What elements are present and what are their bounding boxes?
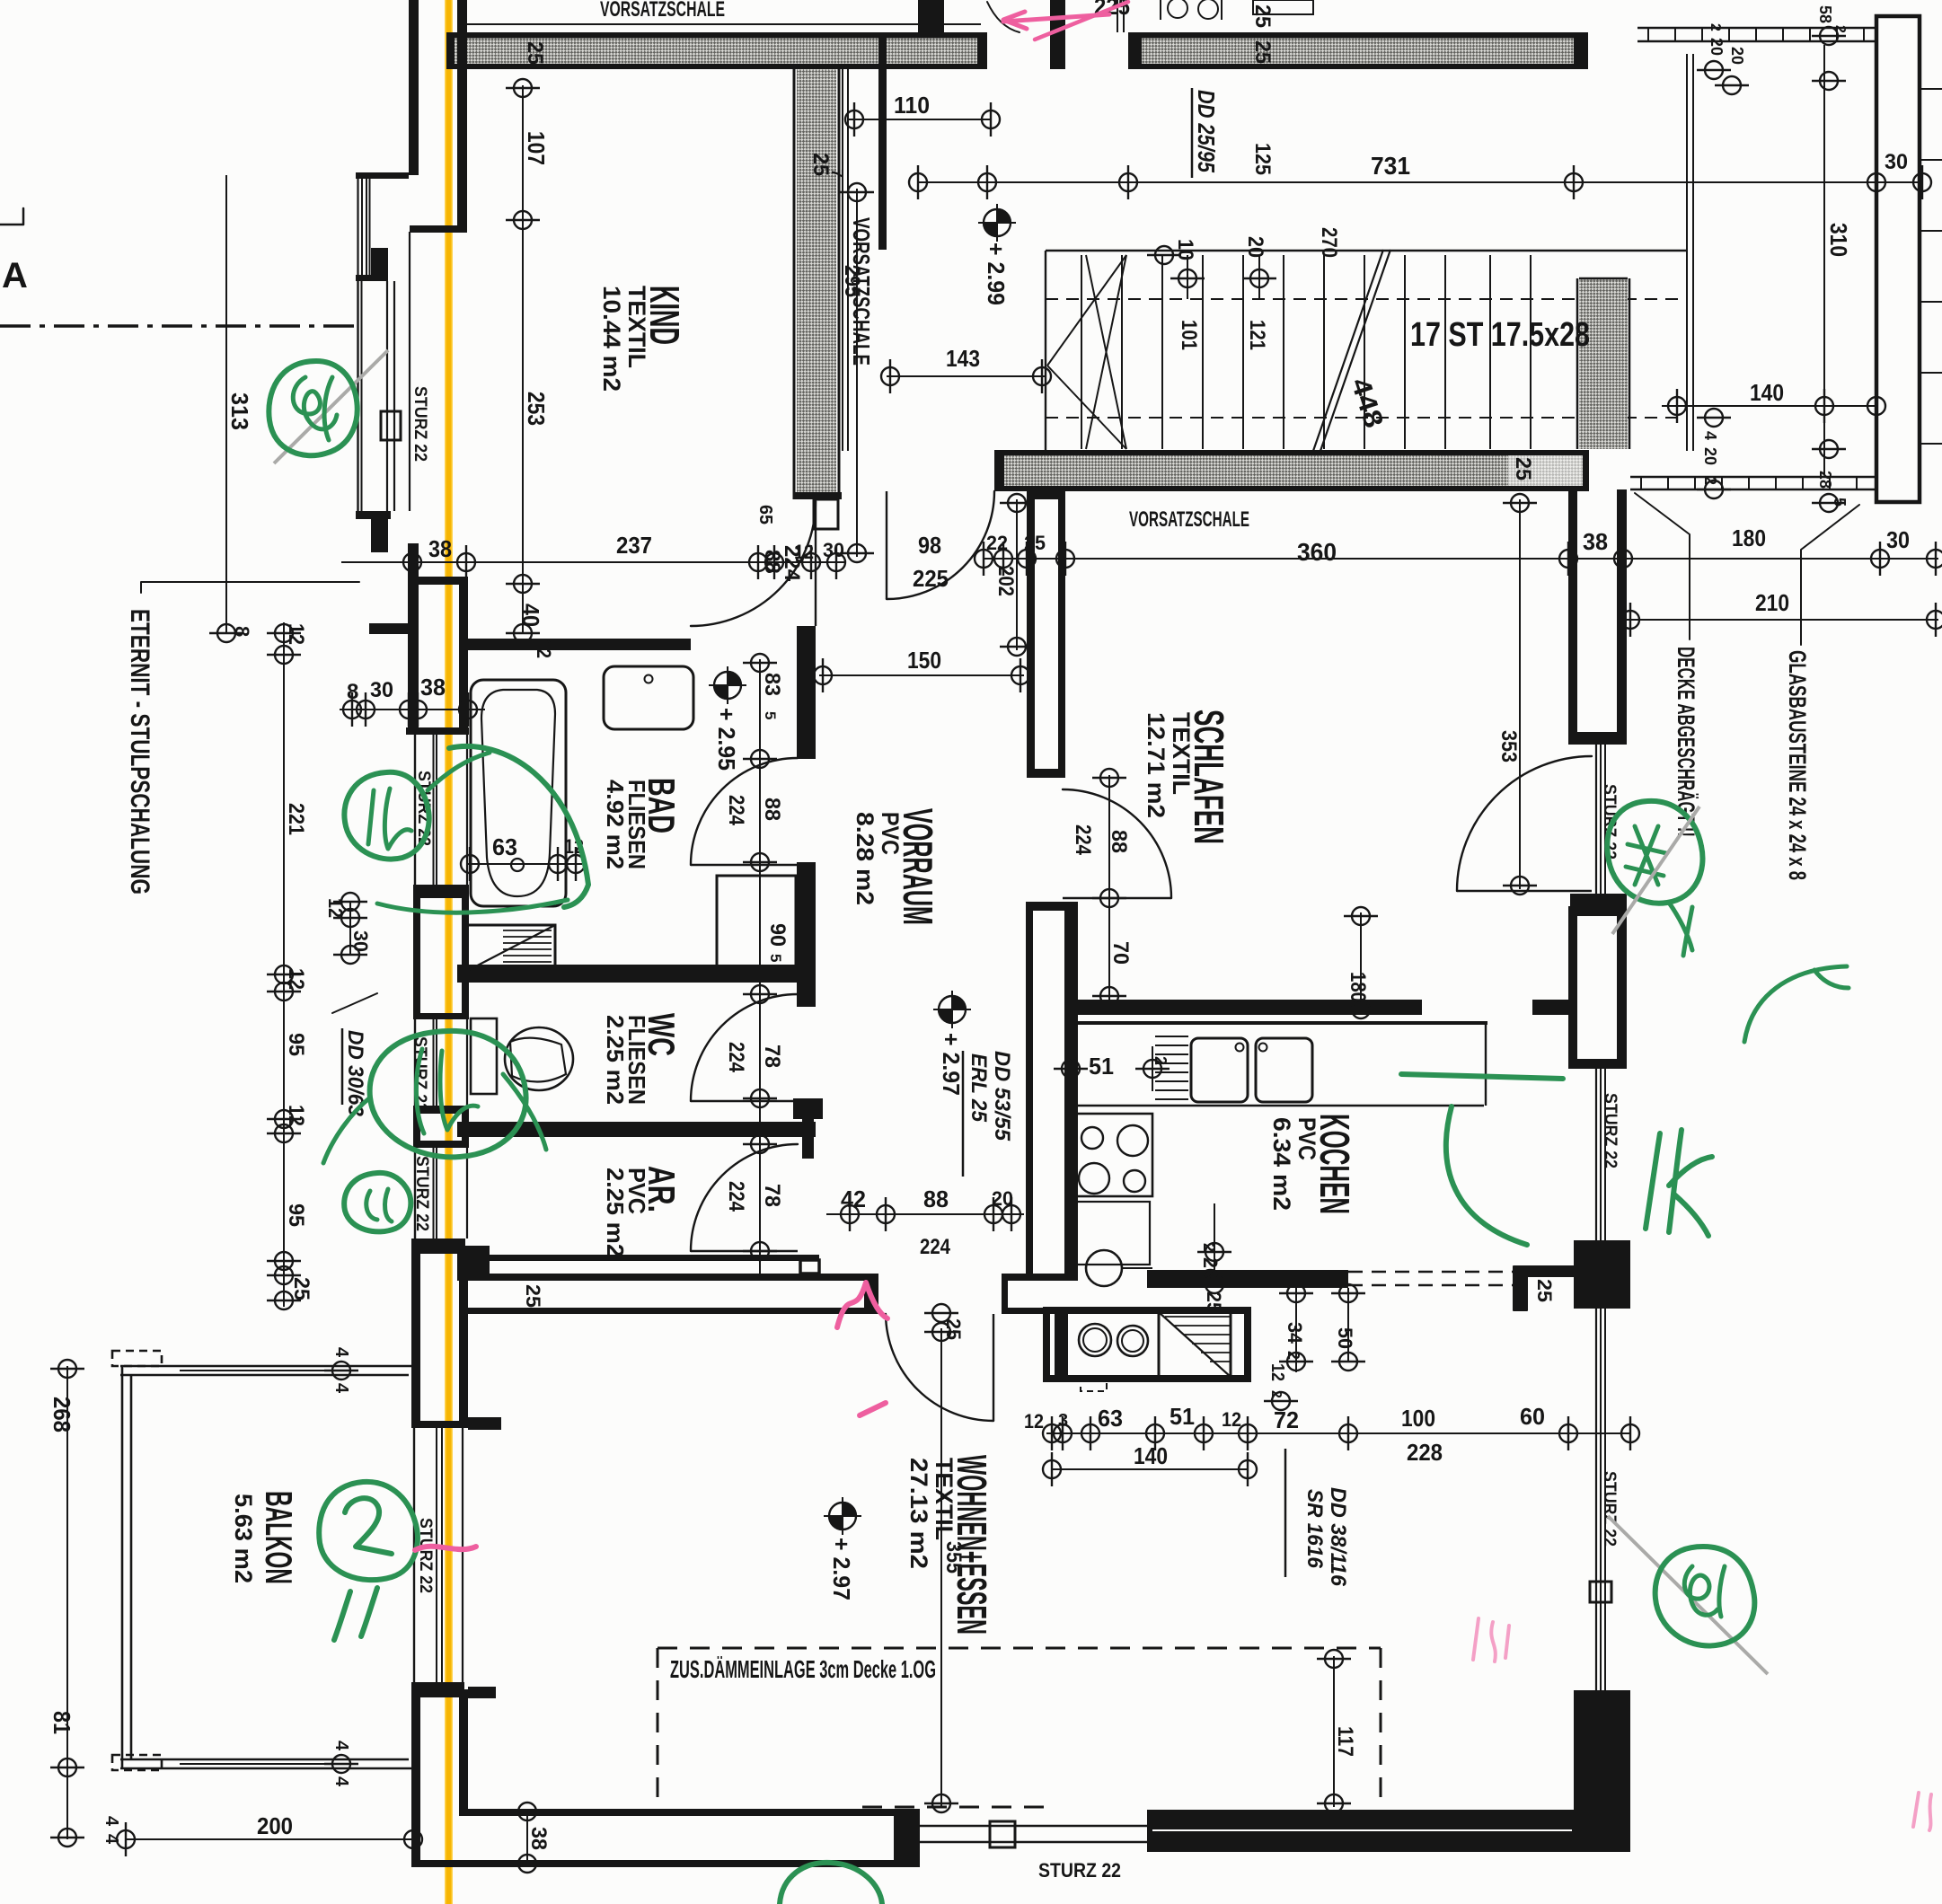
door VORRAUM to WOHNEN bbox=[886, 1314, 993, 1421]
green circled mark 8b (right) bbox=[1655, 1547, 1755, 1645]
sink drainer line bbox=[1155, 1062, 1188, 1064]
green circled mark 1b (left, BAD) bbox=[344, 772, 428, 859]
left dim col 12/221/12/95/12/95/25 bbox=[283, 622, 285, 1307]
svg-text:38: 38 bbox=[420, 674, 446, 701]
green circled mark 2 + 11 (balcony) bbox=[319, 1482, 418, 1580]
svg-text:DD 38/116: DD 38/116 bbox=[1326, 1487, 1350, 1587]
svg-text:88: 88 bbox=[923, 1186, 949, 1212]
green curve over bathtub bbox=[449, 746, 588, 907]
svg-text:VORSATZSCHALE: VORSATZSCHALE bbox=[1129, 507, 1249, 532]
svg-text:STURZ 22: STURZ 22 bbox=[1600, 1471, 1619, 1547]
svg-text:268: 268 bbox=[49, 1397, 75, 1432]
kitchen north wall stub east bbox=[1532, 1000, 1568, 1015]
pencil stroke through green circle 1 bbox=[274, 350, 388, 463]
BAD shower/WM square hatched bbox=[467, 925, 555, 971]
DECKE ABGESCHRAEGT leader+label bbox=[1635, 493, 1690, 639]
svg-text:224: 224 bbox=[724, 1181, 748, 1212]
stair tread 10 bbox=[1489, 255, 1491, 449]
hatched wall band V1 (KIND east wall) bbox=[797, 69, 836, 498]
svg-text:101: 101 bbox=[1177, 320, 1201, 350]
stair tread 10 bbox=[1444, 255, 1446, 449]
yellow marker line bbox=[445, 0, 453, 1904]
BAD door dims 83.5/224/88 bbox=[759, 659, 761, 1275]
stair tread 4 bbox=[1202, 255, 1204, 449]
svg-text:VORSATZSCHALE: VORSATZSCHALE bbox=[600, 0, 725, 22]
svg-text:25: 25 bbox=[1024, 532, 1046, 554]
dim 200 bottom bbox=[126, 1838, 413, 1840]
svg-text:237: 237 bbox=[616, 532, 652, 559]
svg-text:PVC: PVC bbox=[877, 812, 904, 855]
svg-text:224: 224 bbox=[724, 1042, 748, 1073]
hatched stair landing pillar bbox=[1579, 278, 1628, 449]
small arc upper floor door bbox=[987, 2, 1020, 32]
stairs outline bbox=[1046, 250, 1687, 251]
label 355 wohnen west bbox=[940, 1328, 942, 1807]
svg-text:8.28 m2: 8.28 m2 bbox=[852, 812, 878, 905]
svg-text:+ 2.97: + 2.97 bbox=[938, 1033, 965, 1096]
glass block joint tick bbox=[1920, 230, 1942, 232]
glass block joint tick bbox=[1920, 443, 1942, 445]
SCHLAFEN door dims 224/88 bbox=[1108, 775, 1110, 902]
facade wall between WC and AR windows bbox=[413, 1114, 420, 1148]
kitchen south wall stub bbox=[1147, 1270, 1348, 1288]
dim 38 bottom bbox=[526, 1809, 528, 1866]
svg-text:83: 83 bbox=[760, 673, 784, 696]
svg-text:ZUS.DÄMMEINLAGE 3cm Decke 1.OG: ZUS.DÄMMEINLAGE 3cm Decke 1.OG bbox=[670, 1655, 936, 1683]
KIND south wall bbox=[465, 639, 691, 650]
hatched wall band H1 (top, left of stairwell) bbox=[446, 34, 987, 69]
svg-text:270: 270 bbox=[1317, 227, 1341, 258]
south wall black block bbox=[894, 1809, 920, 1867]
svg-text:38: 38 bbox=[1583, 528, 1608, 555]
sink drainer line bbox=[1155, 1045, 1188, 1046]
kitchen stove bbox=[1069, 1114, 1152, 1196]
svg-text:2: 2 bbox=[1708, 23, 1723, 31]
pink mark M (west wall) bbox=[837, 1283, 887, 1327]
svg-text:4: 4 bbox=[331, 1776, 351, 1787]
svg-text:221: 221 bbox=[284, 803, 308, 835]
dim 25 y1448 (AR bottom wall) bbox=[502, 1261, 504, 1311]
svg-text:25: 25 bbox=[523, 41, 547, 65]
svg-text:12: 12 bbox=[284, 968, 308, 990]
east edge glass block band bbox=[1876, 16, 1920, 502]
svg-text:25: 25 bbox=[1511, 457, 1535, 480]
BAD east wall lower bbox=[797, 877, 816, 983]
svg-text:4: 4 bbox=[102, 1816, 121, 1827]
svg-text:SR 1616: SR 1616 bbox=[1302, 1489, 1327, 1569]
facade wall piece at WOHNEN NW bbox=[411, 1246, 420, 1428]
door WC bbox=[691, 994, 798, 1101]
green circled mark WC (1x) bbox=[370, 1031, 526, 1157]
svg-text:125: 125 bbox=[1250, 143, 1275, 175]
svg-text:180: 180 bbox=[1732, 524, 1766, 551]
stair hall right wall thin lines bbox=[1686, 54, 1688, 451]
door jamb line top bbox=[1117, 0, 1118, 32]
svg-text:140: 140 bbox=[1750, 379, 1784, 406]
french door SCHLAFEN east bbox=[1457, 756, 1592, 891]
svg-text:12.71 m2: 12.71 m2 bbox=[1143, 712, 1170, 818]
svg-text:225: 225 bbox=[913, 565, 949, 592]
svg-text:17 ST 17.5x28: 17 ST 17.5x28 bbox=[1410, 316, 1590, 354]
green circled mark ea bbox=[344, 1173, 410, 1232]
svg-text:BALKON: BALKON bbox=[258, 1491, 300, 1584]
WC toilet bbox=[471, 1018, 497, 1094]
upper floor kitchen fragment, top edge bbox=[1168, 0, 1187, 18]
wall stub above stair corridor bbox=[1050, 0, 1065, 69]
svg-text:25: 25 bbox=[1533, 1279, 1556, 1302]
dim 210 bbox=[1627, 619, 1938, 621]
svg-text:253: 253 bbox=[523, 392, 550, 426]
SR 1616 / DD 38/116 labels bbox=[1284, 1449, 1287, 1577]
glass block joint tick bbox=[1920, 88, 1942, 90]
svg-text:4: 4 bbox=[331, 1741, 351, 1751]
svg-text:51: 51 bbox=[1089, 1053, 1114, 1080]
BAD washbasin bbox=[604, 666, 693, 729]
BAD south / WC north wall bbox=[457, 965, 816, 983]
kitchen north wall (SCHLAFEN south) bbox=[1065, 1000, 1422, 1015]
label 353 schlafen east bbox=[1519, 499, 1521, 889]
svg-text:+ 2.99: + 2.99 bbox=[983, 242, 1010, 305]
svg-text:360: 360 bbox=[1297, 538, 1337, 566]
svg-text:98: 98 bbox=[918, 532, 941, 559]
BAD tub dims 63/12 bbox=[466, 863, 582, 865]
door BAD bbox=[691, 758, 798, 865]
90.5 cupboard rect in VORRAUM corner bbox=[717, 876, 796, 970]
stair tread 3 bbox=[1161, 255, 1163, 449]
svg-text:20: 20 bbox=[1243, 236, 1267, 258]
svg-text:65: 65 bbox=[755, 505, 775, 524]
svg-text:95: 95 bbox=[284, 1033, 308, 1056]
glass block joint tick bbox=[1920, 372, 1942, 374]
svg-text:TEXTIL: TEXTIL bbox=[623, 286, 650, 368]
svg-text:313: 313 bbox=[226, 392, 253, 430]
interior wall stub at window5 bottom bbox=[468, 1687, 496, 1698]
mini dim 12/30 left bbox=[333, 893, 367, 911]
kitchen dim 180 vertical bbox=[1360, 912, 1362, 1013]
svg-text:7: 7 bbox=[828, 169, 846, 178]
svg-text:PVC: PVC bbox=[1293, 1117, 1320, 1160]
corridor west wall (thin faces) + stair hall wall bbox=[842, 69, 843, 451]
interior wall stub at window5 top bbox=[468, 1417, 501, 1430]
kitchen lower cupboard bbox=[1069, 1202, 1150, 1265]
svg-text:78: 78 bbox=[760, 1184, 784, 1207]
label 70 corridor bbox=[1108, 902, 1110, 1000]
svg-text:12: 12 bbox=[1222, 1408, 1241, 1431]
pink squiggle balcony sturz bbox=[415, 1547, 476, 1550]
svg-text:2: 2 bbox=[1062, 1056, 1080, 1065]
sink drainer line bbox=[1155, 1036, 1188, 1037]
svg-text:224: 224 bbox=[1071, 824, 1095, 856]
svg-text:140: 140 bbox=[1134, 1442, 1168, 1469]
ERL 25 / DD 53/55 labels bbox=[962, 1051, 965, 1177]
pink arrow top bbox=[1003, 14, 1109, 22]
svg-text:4: 4 bbox=[331, 1383, 351, 1394]
dim line y622 right (360/38/180/30) bbox=[984, 558, 1938, 560]
wall piece top corridor bbox=[918, 0, 944, 34]
svg-text:81: 81 bbox=[49, 1711, 75, 1734]
svg-text:6.34 m2: 6.34 m2 bbox=[1268, 1117, 1295, 1211]
mullion square south window bbox=[990, 1821, 1015, 1847]
left dim col 313 bbox=[225, 175, 227, 633]
svg-text:63: 63 bbox=[1098, 1405, 1123, 1432]
kitchen island block bbox=[1046, 1310, 1248, 1379]
island hatched square (sink unit) bbox=[1159, 1312, 1231, 1377]
facade wall piece SW (WOHNEN) bbox=[411, 1689, 420, 1867]
svg-text:12: 12 bbox=[1267, 1363, 1287, 1381]
svg-text:DD 53/55: DD 53/55 bbox=[990, 1051, 1014, 1142]
green circled mark 12 (schlafen east) bbox=[1607, 801, 1702, 904]
svg-text:2: 2 bbox=[1152, 1056, 1170, 1065]
svg-text:34: 34 bbox=[1284, 1322, 1306, 1344]
svg-text:310: 310 bbox=[1825, 223, 1852, 257]
mullion square east window bbox=[1590, 1582, 1611, 1602]
svg-text:353: 353 bbox=[1496, 730, 1521, 762]
mini dim 8 30 38 bbox=[340, 709, 485, 710]
svg-text:224: 224 bbox=[724, 795, 748, 826]
svg-text:78: 78 bbox=[760, 1045, 784, 1068]
svg-text:51: 51 bbox=[1170, 1403, 1195, 1430]
pink dash bbox=[860, 1403, 886, 1415]
svg-text:40: 40 bbox=[517, 604, 544, 627]
svg-text:30: 30 bbox=[349, 930, 372, 952]
svg-text:20: 20 bbox=[1708, 38, 1726, 56]
svg-text:STURZ 22: STURZ 22 bbox=[410, 1036, 429, 1112]
svg-text:90: 90 bbox=[765, 923, 790, 947]
kitchen west wall lower bar bbox=[1055, 1314, 1068, 1381]
GLASBAUSTEINE label bbox=[1801, 505, 1859, 645]
WOHNEN dim row 12/3/63/51/13/72/100/60 + 228 bbox=[1046, 1432, 1630, 1434]
south window (WOHNEN balcony door 2) bbox=[920, 1825, 1147, 1827]
svg-text:150: 150 bbox=[907, 647, 941, 674]
dim line KIND vertical 107/253/40 bbox=[522, 85, 524, 633]
BAD door jamb bbox=[797, 862, 816, 877]
svg-text:4: 4 bbox=[102, 1834, 121, 1845]
svg-text:VORSATZSCHALE: VORSATZSCHALE bbox=[848, 217, 875, 366]
pink marks bottom right bbox=[1473, 1618, 1509, 1662]
svg-text:95: 95 bbox=[284, 1203, 308, 1227]
svg-text:5: 5 bbox=[767, 954, 784, 962]
interior wall stub right of facade (WOHNEN) bbox=[468, 1246, 490, 1281]
svg-text:25: 25 bbox=[289, 1277, 313, 1300]
svg-text:121: 121 bbox=[1245, 320, 1269, 350]
stair tread 5 bbox=[1242, 255, 1244, 449]
pencil stroke through green 8b right bbox=[1608, 1516, 1768, 1674]
svg-text:70: 70 bbox=[1108, 941, 1133, 965]
svg-text:224: 224 bbox=[920, 1235, 951, 1259]
svg-text:27.13 m2: 27.13 m2 bbox=[905, 1458, 932, 1569]
facade wall between BAD and WC windows bbox=[413, 891, 420, 1019]
DD 25/95 label bbox=[1191, 88, 1194, 178]
stair tread 1 bbox=[1081, 255, 1082, 449]
SCHLAFEN west wall bbox=[1027, 491, 1035, 778]
east wall piece SCHLAFEN/KOCHEN bbox=[1568, 906, 1577, 1069]
facade inner bar at WOHNEN NW bbox=[457, 1246, 468, 1281]
svg-text:+ 2.95: + 2.95 bbox=[713, 708, 740, 771]
WC east wall top bbox=[797, 983, 816, 1007]
svg-text:10.44 m2: 10.44 m2 bbox=[598, 286, 625, 392]
svg-text:210: 210 bbox=[1755, 589, 1789, 616]
WC south wall bbox=[457, 1122, 816, 1137]
svg-text:72: 72 bbox=[1274, 1406, 1299, 1433]
DD 30/63 label left bbox=[332, 993, 377, 1013]
svg-text:107: 107 bbox=[523, 131, 550, 165]
svg-text:STURZ 22: STURZ 22 bbox=[1601, 1093, 1620, 1168]
window 2 (BAD west) bbox=[414, 735, 416, 885]
svg-text:25: 25 bbox=[1250, 40, 1275, 64]
balcony post top-left (part dashed) bbox=[112, 1351, 162, 1366]
WC/AR door jamb T bbox=[793, 1098, 823, 1119]
svg-text:STURZ 22: STURZ 22 bbox=[1038, 1859, 1121, 1882]
svg-text:88: 88 bbox=[760, 798, 784, 821]
window 3 (WC west) bbox=[414, 1019, 416, 1106]
hatched wall band H2 (top, right) bbox=[1128, 34, 1588, 69]
dim balcony 268/81 bbox=[66, 1366, 68, 1839]
stair winder diagonals bbox=[1047, 255, 1126, 366]
left facade: wall segment 1 bbox=[409, 0, 419, 175]
stair tread 9 bbox=[1404, 255, 1406, 449]
balcony railing double lines bbox=[120, 1365, 414, 1368]
door SCHLAFEN bbox=[1063, 789, 1171, 898]
svg-text:20: 20 bbox=[1701, 447, 1719, 465]
sink drainer line bbox=[1155, 1080, 1188, 1082]
window E2 (KOCHEN east) bbox=[1595, 1069, 1597, 1240]
svg-text:DD 25/95: DD 25/95 bbox=[1193, 90, 1220, 172]
BAD east wall upper bbox=[797, 652, 816, 759]
dim 117 + dashed box tick bbox=[1333, 1656, 1335, 1807]
left facade: wall segment 2 bbox=[371, 516, 388, 552]
svg-text:20: 20 bbox=[1728, 47, 1746, 65]
svg-text:TEXTIL: TEXTIL bbox=[1168, 712, 1195, 795]
green circled mark 86 (top left) bbox=[269, 361, 357, 455]
lower ladder band (glass sill) bbox=[1630, 476, 1876, 478]
svg-text:STURZ 22: STURZ 22 bbox=[410, 386, 429, 462]
svg-text:12: 12 bbox=[284, 1105, 308, 1126]
svg-text:30: 30 bbox=[823, 539, 844, 561]
AR jamb square bbox=[800, 1260, 819, 1274]
kitchen counter with sinks bbox=[1065, 1021, 1487, 1025]
svg-text:12: 12 bbox=[1024, 1410, 1044, 1432]
stair tread 6 bbox=[1283, 255, 1284, 449]
svg-text:202: 202 bbox=[993, 566, 1018, 596]
svg-text:+ 2.97: + 2.97 bbox=[828, 1538, 855, 1600]
VORRAUM bottom door dims 42/88/224/20 bbox=[826, 1213, 1024, 1215]
door AR bbox=[691, 1144, 798, 1251]
svg-text:25: 25 bbox=[522, 1284, 544, 1308]
stair tread 7 bbox=[1323, 255, 1325, 449]
stair direction line bbox=[1313, 250, 1383, 451]
svg-text:180: 180 bbox=[1346, 972, 1370, 1002]
svg-text:30: 30 bbox=[370, 678, 393, 702]
svg-text:4.92 m2: 4.92 m2 bbox=[602, 780, 629, 869]
green kitchen door arc + 1k bbox=[1446, 1106, 1527, 1245]
window 4 (AR west) bbox=[414, 1148, 416, 1238]
svg-text:143: 143 bbox=[946, 345, 980, 372]
svg-text:25: 25 bbox=[1250, 4, 1275, 28]
dim line 295 KIND east bbox=[856, 189, 858, 557]
window 5 (balcony door 1, WOHNEN west) bbox=[413, 1428, 415, 1682]
stair tread 8 bbox=[1364, 255, 1365, 449]
green partial circle bottom bbox=[780, 1863, 882, 1904]
level symbol +2.97 WOHNEN bbox=[824, 1497, 861, 1535]
window 1 (KIND west) bbox=[357, 281, 358, 516]
svg-text:58: 58 bbox=[1816, 5, 1834, 23]
svg-text:TEXTIL: TEXTIL bbox=[931, 1458, 958, 1540]
svg-text:5: 5 bbox=[762, 711, 779, 719]
stair tread 2 bbox=[1121, 255, 1123, 449]
wall face line above H1 bbox=[463, 23, 981, 25]
door KIND (arc+leaf) bbox=[691, 501, 816, 626]
svg-text:63: 63 bbox=[492, 833, 517, 860]
level symbol +2.97 VORRAUM bbox=[933, 991, 971, 1028]
KIND door jamb stub bbox=[797, 626, 816, 652]
pencil stroke through green 12 bbox=[1612, 807, 1699, 934]
sink drainer line bbox=[1155, 1053, 1188, 1055]
glass block joint tick bbox=[1920, 159, 1942, 161]
svg-text:110: 110 bbox=[894, 92, 930, 119]
corridor east / kitchen west wall bbox=[1026, 902, 1033, 1274]
east wall piece at SCHLAFEN bbox=[1568, 489, 1577, 745]
svg-text:25: 25 bbox=[1203, 1291, 1225, 1313]
svg-text:A: A bbox=[2, 256, 28, 295]
sink drainer line bbox=[1155, 1098, 1188, 1100]
svg-text:42: 42 bbox=[841, 1186, 866, 1212]
svg-text:20: 20 bbox=[992, 1187, 1013, 1210]
svg-text:38: 38 bbox=[526, 1827, 551, 1850]
window E3 (WOHNEN east) bbox=[1595, 1309, 1597, 1690]
svg-text:4: 4 bbox=[331, 1347, 351, 1358]
svg-text:10: 10 bbox=[1173, 239, 1197, 260]
svg-text:12: 12 bbox=[533, 639, 555, 658]
level symbol +2.99 stair bbox=[978, 204, 1016, 242]
svg-text:100: 100 bbox=[1401, 1405, 1435, 1432]
svg-text:200: 200 bbox=[257, 1812, 293, 1839]
svg-text:30: 30 bbox=[1885, 150, 1908, 174]
boiler circle bbox=[1086, 1250, 1122, 1286]
svg-text:38: 38 bbox=[428, 535, 452, 562]
svg-text:228: 228 bbox=[1407, 1439, 1443, 1466]
svg-text:ETERNIT - STULPSCHALUNG: ETERNIT - STULPSCHALUNG bbox=[125, 609, 154, 895]
bay window 1 (KIND) bbox=[356, 172, 409, 179]
east wall piece KOCHEN/WOHNEN bbox=[1574, 1240, 1630, 1309]
sink drainer line bbox=[1155, 1071, 1188, 1073]
svg-text:355: 355 bbox=[941, 1541, 966, 1573]
small dashed rect below island bbox=[1081, 1377, 1107, 1391]
svg-text:5.63 m2: 5.63 m2 bbox=[230, 1494, 257, 1583]
east wall SE corner piece bbox=[1574, 1690, 1630, 1852]
svg-text:8: 8 bbox=[347, 680, 358, 704]
svg-text:28: 28 bbox=[1816, 471, 1834, 489]
wall stub top-left bbox=[459, 0, 467, 28]
balcony 4/4 ticks bbox=[324, 1362, 358, 1380]
AR south wall / VORRAUM south band bbox=[468, 1255, 819, 1261]
glass block joint tick bbox=[1920, 301, 1942, 303]
svg-text:22: 22 bbox=[986, 532, 1008, 554]
south wall, solid east part bbox=[1147, 1810, 1630, 1852]
white notch below V1 bbox=[814, 499, 838, 529]
window mullion square KIND bbox=[381, 411, 401, 440]
svg-text:8: 8 bbox=[231, 626, 253, 637]
svg-text:STURZ 22: STURZ 22 bbox=[412, 1156, 431, 1231]
svg-text:50: 50 bbox=[1334, 1327, 1356, 1349]
dim line y626 (38/237/12 30) bbox=[341, 561, 844, 563]
svg-text:30: 30 bbox=[1886, 526, 1910, 553]
level symbol +2.95 BAD bbox=[709, 666, 746, 704]
axis dash-dot line + A bbox=[0, 324, 355, 328]
ETERNIT - STULPSCHALUNG label bbox=[141, 582, 359, 593]
svg-text:12: 12 bbox=[324, 898, 347, 918]
svg-text:4: 4 bbox=[1701, 431, 1719, 440]
dim 310 right bbox=[1823, 45, 1825, 475]
